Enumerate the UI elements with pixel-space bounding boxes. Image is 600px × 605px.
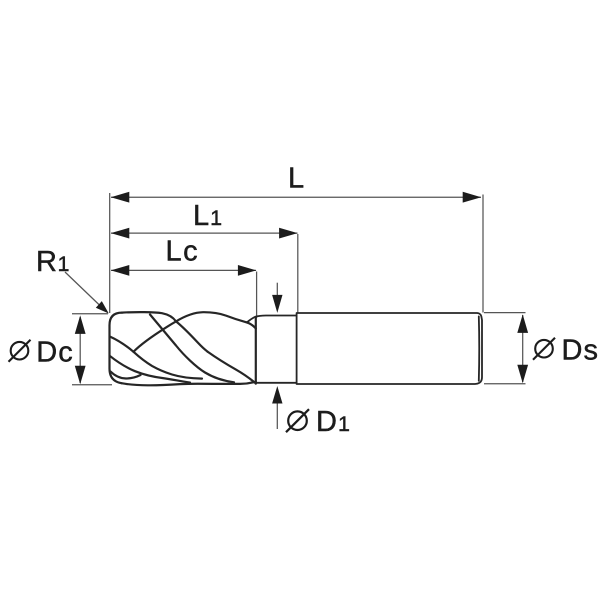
neck bottom edge [256,382,297,384]
flute helix D-line: K2 to bottom right corner [208,352,256,384]
svg-text:Dc: Dc [36,337,72,369]
Dc dimension ticks [72,313,108,315]
Dc top arrow [75,315,86,334]
Lc right arrow [238,265,257,276]
shank end chamfer edge [478,316,480,380]
arrowheads [75,192,528,404]
D1 bottom arrow (points up) [272,386,282,404]
right extension line [482,195,484,313]
label Ds diameter symbol [533,338,555,360]
L left arrow [111,192,130,203]
flute top crest 1 arc [122,312,176,321]
dimension extension lines [65,193,526,429]
label D1 diameter symbol [286,409,309,432]
Ds top arrow [517,314,528,333]
flute left edge and corners [110,313,123,384]
neck shoulder curve [247,316,297,323]
Ds dimension ticks [484,312,526,314]
Ds bottom arrow [517,365,528,384]
Dc dimension line [79,317,81,383]
R1 leader arrowhead [96,301,109,313]
svg-text:Ds: Ds [562,335,598,367]
svg-text:L: L [288,163,304,195]
D1 bottom arrow tail [276,402,278,429]
L dimension line [111,196,481,198]
flute K1 lower branch [134,352,203,379]
flute ribbon second left-edge curve [110,356,190,382]
Lc dimension line [111,269,256,271]
L1 dimension line [111,232,298,234]
flute bottom silhouette [122,382,256,386]
L1 right arrow [279,228,298,239]
R1 leader line [65,272,102,308]
flute helix P-line: crest1 steep descent to bottom [150,315,234,383]
flute helix W2: cusp K1 over crest 2 to shoulder [134,312,247,352]
cutter body [247,313,482,384]
shank outline with chamfered end [297,313,482,384]
L1 left arrow [111,228,130,239]
D1 top arrow tail [276,283,278,296]
flute helix W2 tail to right edge [247,322,256,328]
Lc extension line [256,272,258,319]
left extension line [109,193,111,313]
Dc bottom arrow [75,366,86,385]
Lc left arrow [111,265,130,276]
D1 top arrow (points down) [272,295,282,313]
svg-text:Lc: Lc [166,236,198,268]
Ds dimension line [522,315,524,382]
L right arrow [463,192,482,203]
label Dc diameter symbol [9,340,31,362]
flute end-face eye arc [111,372,141,379]
flute right edge [255,317,257,384]
flute helix Q-line: dip to cusp K2 [176,321,208,351]
flute end-face upper edge to K1 [110,337,134,352]
L1 extension line [297,234,299,313]
